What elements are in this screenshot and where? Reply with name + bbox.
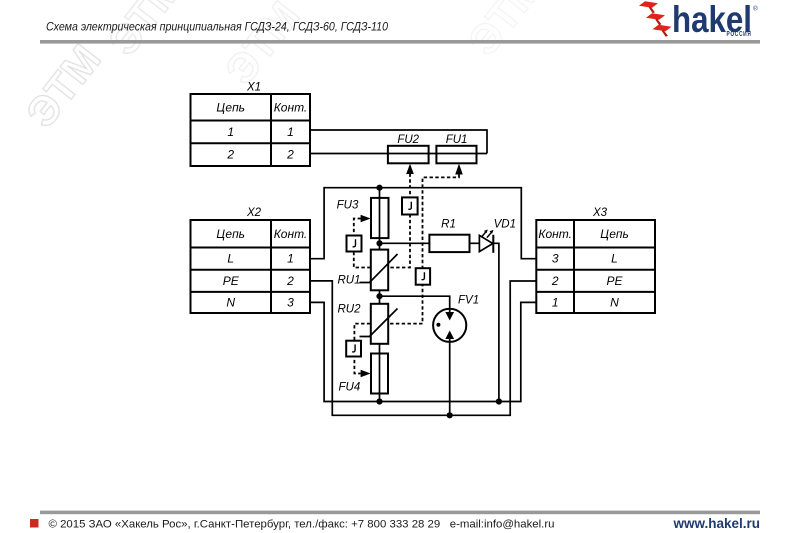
svg-text:© 2015 ЗАО «Хакель Рос», г.Сан: © 2015 ЗАО «Хакель Рос», г.Санкт-Петербу… bbox=[49, 519, 555, 531]
svg-text:Цепь: Цепь bbox=[600, 227, 629, 241]
svg-text:1: 1 bbox=[287, 125, 294, 139]
wire X1 pin2 through FU2 FU1 bbox=[310, 153, 487, 155]
svg-text:N: N bbox=[610, 296, 619, 310]
svg-text:3: 3 bbox=[552, 252, 559, 266]
resistor R1 bbox=[429, 219, 469, 253]
svg-text:www.hakel.ru: www.hakel.ru bbox=[672, 516, 760, 531]
wire X1 pin1 to FU1 bbox=[310, 130, 487, 154]
contact J4 bbox=[346, 341, 361, 357]
varistor RU2 bbox=[338, 304, 398, 344]
svg-text:RU2: RU2 bbox=[338, 304, 362, 316]
svg-text:1: 1 bbox=[287, 252, 294, 266]
contact J3 bbox=[416, 268, 430, 285]
wire L: X2 pin1 to X3 pin3 bbox=[310, 188, 536, 259]
fuse FU3 bbox=[337, 198, 389, 238]
fuse FU1 bbox=[436, 134, 476, 163]
wire RU1 bottom to FV1 bbox=[380, 296, 450, 312]
wire PE bus: X2 pin2 to X3 pin2 bbox=[310, 281, 536, 415]
arrester FV1 bbox=[433, 294, 479, 342]
wire VD1 cathode to N bus bbox=[493, 243, 499, 401]
svg-text:®: ® bbox=[753, 5, 758, 13]
junction node FU3-R1 bbox=[376, 240, 382, 246]
svg-text:Конт.: Конт. bbox=[274, 101, 308, 115]
svg-text:PE: PE bbox=[606, 274, 623, 288]
svg-text:R1: R1 bbox=[441, 219, 456, 231]
contact J2 bbox=[347, 236, 362, 252]
svg-text:3: 3 bbox=[287, 296, 294, 310]
contact J1 bbox=[402, 197, 418, 214]
connector X3 table bbox=[536, 207, 655, 313]
dashed link FU1-J-RU2-J-FU4 bbox=[354, 175, 459, 374]
junction node FV1-PE bus bbox=[447, 412, 453, 418]
svg-text:2: 2 bbox=[226, 148, 234, 162]
wire branch through FU3 RU1 RU2 FU4 bbox=[379, 188, 381, 402]
svg-text:PE: PE bbox=[223, 274, 240, 288]
svg-text:X1: X1 bbox=[246, 82, 261, 94]
svg-text:X3: X3 bbox=[592, 207, 608, 219]
svg-text:2: 2 bbox=[286, 148, 294, 162]
footer red bullet bbox=[30, 519, 39, 528]
svg-text:FU3: FU3 bbox=[337, 199, 359, 211]
svg-text:X2: X2 bbox=[246, 207, 262, 219]
varistor RU1 bbox=[338, 250, 398, 291]
svg-text:L: L bbox=[227, 252, 234, 266]
svg-text:FU1: FU1 bbox=[446, 134, 468, 146]
wire N bus: X2 pin3 to X3 pin1 bbox=[310, 302, 536, 401]
junction node VD1-N bus bbox=[496, 398, 502, 404]
svg-text:Цепь: Цепь bbox=[216, 101, 245, 115]
junction node at L tap bbox=[376, 185, 382, 191]
svg-text:1: 1 bbox=[227, 125, 234, 139]
connector X1 table bbox=[191, 82, 311, 167]
logo lightning bolts bbox=[639, 1, 672, 36]
svg-text:FV1: FV1 bbox=[458, 294, 479, 306]
svg-text:Конт.: Конт. bbox=[538, 227, 572, 241]
connector X2 table bbox=[191, 207, 311, 313]
svg-text:L: L bbox=[611, 252, 618, 266]
footer rule bar bbox=[40, 511, 760, 515]
svg-text:VD1: VD1 bbox=[494, 219, 516, 231]
fuse FU2 bbox=[388, 134, 429, 163]
junction node FU4-N bus bbox=[376, 398, 382, 404]
dashed link FU2-J-RU1-J-FU3 bbox=[354, 174, 410, 268]
svg-text:N: N bbox=[226, 296, 235, 310]
svg-text:Схема электрическая принципиал: Схема электрическая принципиальная ГСДЗ-… bbox=[46, 20, 388, 34]
svg-text:РОССИЯ: РОССИЯ bbox=[727, 31, 752, 38]
header rule bar bbox=[40, 40, 760, 44]
wire to R1 bbox=[380, 242, 480, 244]
svg-text:2: 2 bbox=[286, 274, 294, 288]
LED VD1 bbox=[479, 219, 516, 253]
svg-text:RU1: RU1 bbox=[338, 275, 361, 287]
junction node RU1-FV1 bbox=[376, 293, 382, 299]
watermark ETM top-left bbox=[17, 0, 552, 136]
fuse FU4 bbox=[339, 354, 389, 394]
arrow to FU2 bbox=[406, 164, 414, 174]
svg-text:1: 1 bbox=[552, 296, 559, 310]
svg-text:Конт.: Конт. bbox=[274, 227, 308, 241]
svg-text:FU2: FU2 bbox=[397, 134, 419, 146]
wire FV1 bottom to PE bus bbox=[449, 338, 451, 416]
svg-text:2: 2 bbox=[551, 274, 559, 288]
svg-text:Цепь: Цепь bbox=[216, 227, 245, 241]
arrow to FU1 bbox=[455, 164, 463, 175]
arrow to FU3 bbox=[361, 215, 371, 223]
arrow to FU4 bbox=[361, 370, 371, 378]
svg-text:FU4: FU4 bbox=[339, 382, 361, 394]
